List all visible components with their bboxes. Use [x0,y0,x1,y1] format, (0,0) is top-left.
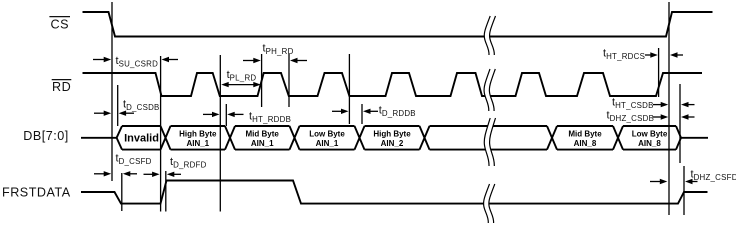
break mark DB [484,118,495,166]
svg-text:AIN_1: AIN_1 [186,139,209,148]
arrow tHT_RDCS left [645,52,658,57]
DB bus transition 6 [547,126,557,150]
data label Mid Byte AIN_1 [246,129,280,148]
svg-text:CS: CS [51,18,70,32]
break mark CS [484,16,495,55]
arrow tDHZ_CSFD right [685,179,698,184]
svg-text:High Byte: High Byte [373,129,411,138]
DB bus idle tail wire [681,137,708,139]
arrow tD_CSDB right [119,111,134,116]
svg-text:FRSTDATA: FRSTDATA [2,186,71,200]
arrow tD_RDDB left [332,109,349,114]
DB bus transition 3 [290,126,300,150]
data label Mid Byte AIN_8 [568,129,602,148]
svg-text:AIN_1: AIN_1 [251,139,274,148]
ref line FRSTDATA release [683,166,685,215]
svg-text:DB[7:0]: DB[7:0] [23,129,69,143]
DB bus end point [676,126,681,150]
data label High Byte AIN_2 [373,129,411,148]
ref line RD rise 2 [261,54,263,107]
arrow tD_RDFD right [167,172,181,177]
arrow tHT_CSDB right [681,102,695,107]
DB bus transition 7 [613,126,623,150]
break mark FRSTDATA [484,184,495,223]
ref line DB release [679,84,681,163]
FRSTDATA waveform [81,181,708,204]
arrow tSU_CSRD left [93,57,111,62]
svg-text:Low Byte: Low Byte [632,129,668,138]
arrow tPH_RD left [243,58,261,63]
ref line RD last rise [658,48,660,97]
arrow tDHZ_CSDB left [653,114,668,119]
svg-text:AIN_1: AIN_1 [316,139,339,148]
ref line DB invalid start [117,85,119,126]
svg-text:AIN_2: AIN_2 [381,139,404,148]
svg-text:RD: RD [52,80,71,94]
signal label RD with overline [52,80,72,95]
svg-text:Mid Byte: Mid Byte [568,129,602,138]
svg-text:Low Byte: Low Byte [309,129,345,138]
signal label CS with overline [49,17,70,32]
ref line RD fall 3 [348,54,350,124]
svg-text:High Byte: High Byte [179,129,217,138]
break mark RD [484,69,495,111]
DB bus segment edges top [122,125,676,127]
arrow tD_CSFD right [123,171,137,176]
data label Low Byte AIN_8 [632,129,668,148]
arrow tHT_RDDB left [203,112,220,117]
DB bus transition 4 [355,126,365,150]
DB bus transition 1 [161,126,171,150]
DB bus idle lead wire [81,137,117,139]
svg-text:Mid Byte: Mid Byte [246,129,280,138]
arrow tSU_CSRD right [162,57,179,62]
CS waveform [83,12,713,37]
ref line CS fall [111,2,113,181]
ref line DB transition 1 [225,104,227,126]
arrow tD_CSDB left [94,111,111,116]
arrow tD_CSFD left [94,171,111,176]
ref line FRSTDATA rise [165,171,167,212]
DB bus start point [117,126,122,150]
ref line RD fall 2 [288,54,290,107]
svg-text:Invalid: Invalid [124,133,159,145]
DB bus segment edges bottom [122,149,676,151]
arrow tPH_RD right [290,58,307,63]
DB bus transition 2 [225,126,235,150]
ref line RD fall 1 end [219,55,221,212]
ref line CS rise [668,2,670,215]
data label High Byte AIN_1 [179,129,217,148]
ref line FRSTDATA fall [121,173,123,211]
arrow tD_RDFD left [144,172,160,177]
svg-text:AIN_8: AIN_8 [574,139,597,148]
DB bus transition 5 [420,126,430,150]
data label Low Byte AIN_1 [309,129,345,148]
arrow tHT_RDDB right [227,112,243,117]
arrow tHT_CSDB left [653,102,668,107]
ref line DB transition 4 [361,104,363,124]
arrow tDHZ_CSFD left [650,179,667,184]
arrow tHT_RDCS right [670,52,683,57]
RD waveform [83,73,703,96]
arrow tPL_RD double [221,82,261,87]
svg-text:AIN_8: AIN_8 [638,139,661,148]
arrow tDHZ_CSDB right [681,114,695,119]
arrow tD_RDDB right [363,109,378,114]
ref line RD fall 1 [160,56,162,212]
